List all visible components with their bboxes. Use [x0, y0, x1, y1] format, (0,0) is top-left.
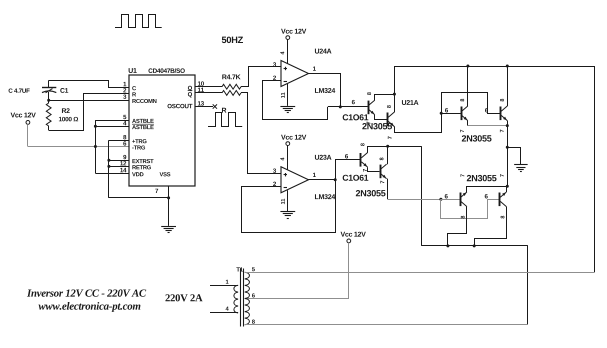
- wire: Q7 emitter up: [467, 187, 508, 193]
- wire: Q2 emitter to output pair bases: [395, 93, 501, 133]
- wire: junction to Q1 base: [328, 106, 368, 108]
- power: Vcc 12V terminal (left): [11, 113, 36, 125]
- label: 50HZ: [222, 37, 243, 44]
- wire: tap to Q5 base: [441, 113, 461, 115]
- wire: Vcc to VDD rail: [27, 124, 29, 146]
- wire: Q5 collector to rail: [467, 66, 469, 106]
- power: Vcc 12V terminal (transformer tap): [341, 232, 366, 243]
- op-amp U23A (LM324): [273, 135, 335, 219]
- wire: collector node down to T1 pin 8: [527, 246, 529, 325]
- wire: rail down to T1 pin 5: [594, 66, 596, 272]
- wire: Q8 emitter up: [506, 186, 508, 192]
- label: title line 2: [38, 302, 140, 312]
- IC U1 CD4047B/SO: [120, 68, 204, 193]
- wire: Q4 emitter to lower pair bases: [388, 199, 441, 201]
- wire: T1 pin 4 (AC out): [210, 312, 238, 314]
- transistor Q8 2N3055 (lower pair right): [500, 174, 507, 218]
- wire: V+ collector rail (top): [394, 66, 594, 68]
- label: title line 1: [27, 289, 146, 296]
- wire: resistor to U24A pin 3: [241, 67, 281, 87]
- wire: Q4 emitter down: [387, 179, 389, 200]
- wire: VDD rail into U1 pin 6: [28, 146, 129, 148]
- node: U24A output junction: [339, 105, 342, 108]
- wire: tap to Q7 base: [441, 199, 460, 201]
- label: pin6 Q5 base: [445, 108, 448, 112]
- wire: T1 pin 5 to rail: [245, 272, 595, 274]
- label: 2N3055 (upper darlington): [362, 123, 392, 129]
- wire: U24A feedback loop: [263, 81, 328, 120]
- ground (below U1): [161, 227, 176, 233]
- wire: pins 8-9-12 ground bus (vertical): [108, 140, 110, 198]
- wire: bus to U1 pin 12: [109, 166, 129, 168]
- node: ground tap: [506, 146, 509, 149]
- label: C1O61 (upper): [343, 114, 369, 120]
- wire: bus to U1 pin 5: [95, 120, 129, 122]
- node: pin 12 tap: [107, 165, 110, 168]
- node: upper pair emitter junction: [506, 124, 509, 127]
- transistor Q6 2N3055 (upper pair right): [500, 99, 507, 132]
- wire: VSS pin 7 stub: [168, 186, 170, 198]
- node: output pair left base tap: [440, 112, 443, 115]
- wire: Q8 collector staircase: [475, 207, 507, 246]
- wire: stem to ground: [168, 198, 170, 226]
- wire: emitter join (upper pair): [468, 125, 507, 127]
- wire: U23A output: [309, 179, 336, 181]
- wire: Q1 collector: [375, 95, 395, 101]
- waveform: OSCOUT square wave: [208, 113, 242, 127]
- node: pin 4 tap: [94, 125, 97, 128]
- label: 220V 2A: [165, 294, 202, 301]
- wire: resistor to U23A pin 3: [241, 93, 281, 174]
- label: 2N3055 (lower darlington): [356, 190, 386, 196]
- label: 2N3055 (upper pair): [462, 135, 492, 141]
- node: Q1/Q2 collector junction: [393, 93, 396, 96]
- transformer T1: [226, 267, 255, 326]
- transistor Q4 2N3055 (lower darlington): [380, 158, 387, 184]
- wire: Q4 collector up: [387, 146, 389, 164]
- transistor Q2 2N3055 (upper darlington): [387, 105, 394, 139]
- wire: U1 pin 11 to resistor: [195, 92, 222, 94]
- wire: U23A feedback loop: [242, 180, 336, 233]
- wire: bus to U1 pin 14: [95, 173, 129, 175]
- wire: bus to U1 pin 8: [109, 140, 129, 142]
- node: VDD rail / pins 4-5-14 bus junction: [94, 145, 97, 148]
- wire: bus to U1 pin 9: [109, 160, 129, 162]
- node: VSS-ground junction: [167, 196, 170, 199]
- wire: Q3 collector: [368, 147, 422, 153]
- wire: Vcc to T1 pin 6: [245, 243, 349, 299]
- wire: Q5 emitter down: [467, 121, 469, 126]
- op-amp U24A (LM324): [273, 29, 335, 113]
- ground (right side): [514, 165, 528, 172]
- node: lower pair left base tap: [439, 198, 442, 201]
- wire: U1 pin 13 OSCOUT stub: [195, 106, 213, 108]
- label: pin6 Q6 base: [485, 108, 488, 112]
- wire: Q7 collector staircase: [448, 207, 467, 246]
- node: lower pair emitter junction: [506, 185, 509, 188]
- resistor R2 (1000 ohm): [46, 100, 78, 130]
- wire: U24A output: [309, 74, 341, 107]
- label: R (oscout): [222, 108, 226, 113]
- wire: junction to U1 pin 3: [49, 100, 129, 102]
- wire: junction up to Q3 base: [336, 160, 361, 180]
- wire: Q1 emitter to Q2 base: [375, 115, 388, 120]
- wire: emitter bus vertical: [507, 126, 509, 187]
- wire: pins 5-4-14 bus (vertical): [95, 120, 97, 173]
- wire: T1 pin 8 to collector node: [245, 324, 528, 326]
- label: pin6 Q7 base: [445, 194, 448, 198]
- wire: U1 pin 10 to resistor: [195, 86, 222, 88]
- node: Q3/Q4 collector junction: [386, 145, 389, 148]
- label: C1O61 (lower): [343, 175, 369, 181]
- wire: Q6 collector to rail: [507, 66, 509, 106]
- capacitor C1 (4.7uF): [9, 80, 69, 100]
- transistor Q1 C1061 (upper): [352, 92, 375, 124]
- resistor R (Qbar output): [222, 91, 241, 96]
- waveform: clock square wave (top left): [115, 15, 162, 28]
- no-connect X on pin 13: [213, 104, 217, 108]
- wire: ground bus to VSS: [109, 197, 169, 199]
- transistor Q7 2N3055 (lower pair left): [461, 174, 467, 218]
- resistor R4.7K (Q output): [222, 84, 241, 89]
- node: Q7 collector junction: [446, 244, 449, 247]
- wire: Q2 collector to rail: [394, 66, 396, 112]
- label: R4.7K: [222, 74, 240, 79]
- transistor Q3 C1061 (lower): [345, 143, 368, 171]
- node: C1-R2-RCCOMN junction: [47, 99, 50, 102]
- wire: Q3 emitter to Q4 base: [368, 167, 380, 171]
- wire: collector node horizontal: [422, 245, 528, 247]
- transistor Q5 2N3055 (upper pair left): [460, 99, 468, 133]
- wire: C1 top to U1 pin 1: [49, 81, 129, 88]
- node: U23A output junction: [334, 178, 337, 181]
- wire: lower collector drop: [421, 146, 423, 246]
- node: pin 9 tap: [107, 159, 110, 162]
- node: rail-Q5 junction: [466, 65, 469, 68]
- wire: bus to U1 pin 4: [95, 126, 129, 128]
- node: rail-Q6 junction: [506, 65, 509, 68]
- label: U21A: [402, 100, 419, 105]
- label: pin6 Q8 base: [485, 194, 488, 198]
- wire: lower base under-route: [441, 199, 500, 218]
- wire: R2 bottom to U1 pin 2: [49, 94, 129, 131]
- node: Q8 collector junction: [473, 244, 476, 247]
- wire: ground tap: [507, 148, 520, 165]
- wire: T1 pin 1 (AC out): [210, 285, 238, 287]
- wire: Q6 emitter down: [507, 121, 509, 126]
- label: 2N3055 (lower pair): [467, 175, 497, 181]
